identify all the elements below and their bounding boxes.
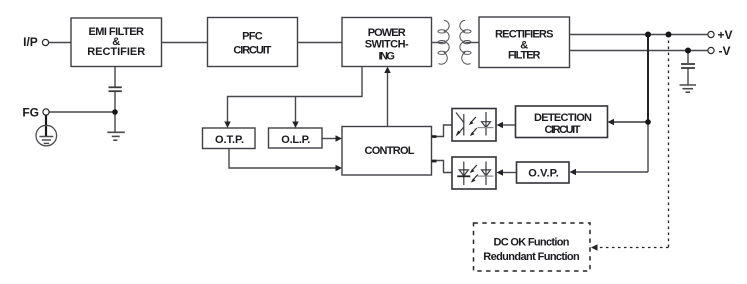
svg-text:O.T.P.: O.T.P. <box>215 134 244 146</box>
svg-text:DETECTION: DETECTION <box>534 112 592 124</box>
svg-text:PFC: PFC <box>242 31 263 43</box>
svg-text:I/P: I/P <box>23 35 38 49</box>
svg-text:O.V.P.: O.V.P. <box>528 167 559 179</box>
svg-text:RECTIFIER: RECTIFIER <box>87 46 145 58</box>
svg-text:CIRCUIT: CIRCUIT <box>545 124 581 136</box>
svg-text:-V: -V <box>719 44 731 58</box>
svg-text:O.L.P.: O.L.P. <box>281 134 310 146</box>
svg-text:FILTER: FILTER <box>508 50 541 62</box>
svg-text:ING: ING <box>378 50 395 62</box>
svg-text:FG: FG <box>22 105 39 119</box>
svg-text:CONTROL: CONTROL <box>365 145 415 157</box>
svg-text:+V: +V <box>718 28 733 42</box>
svg-text:POWER: POWER <box>368 27 406 39</box>
svg-text:SWITCH-: SWITCH- <box>365 39 409 51</box>
svg-text:DC OK Function: DC OK Function <box>494 236 570 248</box>
svg-text:Redundant Function: Redundant Function <box>483 251 580 263</box>
svg-text:CIRCUIT: CIRCUIT <box>233 44 271 56</box>
